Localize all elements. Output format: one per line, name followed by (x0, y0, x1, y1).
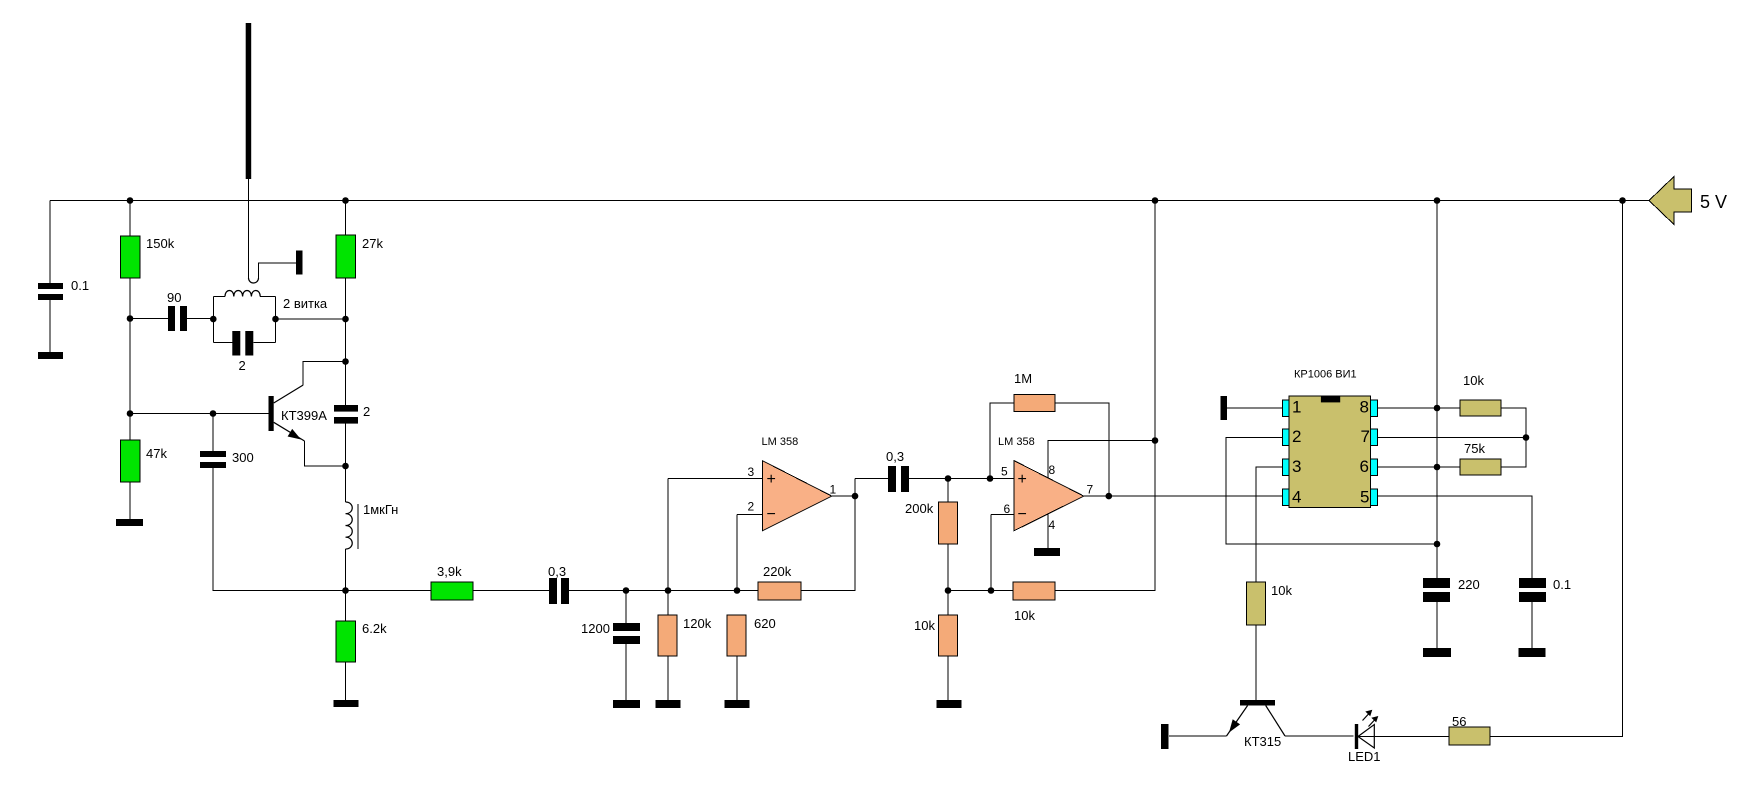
transistor Q2 KT315 (1240, 700, 1275, 706)
node junction midrow-1200 (623, 587, 630, 594)
node junction midrow-620 (734, 587, 741, 594)
node junction 200k-10k (945, 587, 952, 594)
svg-text:56: 56 (1452, 714, 1466, 729)
svg-text:0,3: 0,3 (886, 449, 904, 464)
wire 56 to rail (1490, 201, 1623, 737)
pin 5 (1371, 489, 1378, 506)
svg-text:−: − (1018, 506, 1027, 523)
wire node to C90 (130, 318, 168, 320)
wire op2 output to 555 pin4 (1084, 495, 1283, 497)
LED light arrows (1363, 714, 1375, 727)
resistor R 47k (121, 440, 141, 482)
terminal antenna coupling tap (296, 251, 303, 275)
node junction 555pin8 (1434, 405, 1441, 412)
wire op2 pin8 to rail column (1048, 441, 1155, 479)
pin 1 (1282, 400, 1289, 417)
wire tank right side (275, 297, 277, 343)
wire 10k right to corner (1501, 408, 1526, 438)
wire collector KT315 (1266, 706, 1285, 737)
resistor R 56 (1449, 727, 1490, 745)
node junction rail-150k (127, 197, 134, 204)
pin 6 (1371, 459, 1378, 476)
antenna (246, 23, 252, 179)
svg-text:220k: 220k (763, 564, 792, 579)
svg-text:−: − (767, 506, 776, 523)
pin 4 (1282, 489, 1289, 506)
inductor tank coil 2 витка (213, 296, 275, 298)
resistor R 10k (555 top) (1460, 400, 1501, 416)
svg-text:2: 2 (239, 358, 246, 373)
wire 555 pin5 (1377, 496, 1532, 578)
wire C 0,3 to op-amp inputs (569, 590, 758, 592)
resistor R 3,9k (431, 582, 473, 600)
node junction tank-27k (342, 316, 349, 323)
ground below 47k (116, 519, 143, 526)
wire 75k right to corner (1501, 438, 1526, 468)
node junction rail-op2pin8 (1152, 197, 1159, 204)
svg-text:3: 3 (1292, 457, 1301, 476)
svg-text:2: 2 (748, 500, 755, 514)
op-amp U1 LM358 (668, 478, 762, 480)
svg-text:+: + (1018, 471, 1027, 488)
IC U3 KP1006 VI1 (555) (1289, 396, 1371, 508)
capacitor 2 (tank) (213, 342, 232, 344)
5V arrow (1649, 177, 1692, 225)
svg-text:5: 5 (1360, 488, 1369, 507)
wire node to pin2 (736, 515, 738, 591)
wire 5V rail (50, 200, 1649, 202)
resistor R 620 (727, 615, 746, 656)
wire cap2 to coil (345, 424, 347, 502)
svg-text:2 витка: 2 витка (283, 296, 328, 311)
wire 555 pin7 (1377, 437, 1526, 439)
node junction rail-555col (1434, 197, 1441, 204)
pin 3 (1282, 459, 1289, 476)
op-amp U2 LM358 (991, 514, 1014, 516)
svg-text:7: 7 (1361, 427, 1370, 446)
LED LED1 (1355, 724, 1358, 749)
node junction 555pin2-220 (1434, 541, 1441, 548)
ground op2 pin4 (1034, 548, 1060, 556)
resistor R 6.2k (336, 621, 356, 662)
wire below C 0.1 (49, 300, 51, 352)
node junction rail-27k (342, 197, 349, 204)
svg-text:620: 620 (754, 616, 776, 631)
terminal emitter KT315 (1161, 724, 1169, 749)
resistor R 1M (feedback op2) (990, 403, 1014, 479)
resistor R 10k (feedback) (1013, 582, 1055, 600)
wire 1200 to ground (625, 644, 627, 700)
ground below C 0.1 (38, 352, 63, 359)
wire antenna lead with coupling hook (248, 179, 250, 278)
node junction collector (342, 358, 349, 365)
svg-text:0,3: 0,3 (548, 564, 566, 579)
pin 2 (1282, 429, 1289, 446)
wire 27k column down (345, 278, 347, 405)
capacitor 2 (collector-emitter) (334, 405, 358, 412)
node junction 10k-75k (1523, 434, 1530, 441)
svg-text:КТ315: КТ315 (1244, 734, 1281, 749)
resistor R 27k (336, 235, 356, 278)
wire rail column x1437 (1436, 201, 1438, 579)
node junction midrow-6.2k (342, 587, 349, 594)
wire collector (274, 385, 304, 403)
svg-text:4: 4 (1049, 518, 1056, 532)
svg-text:1: 1 (830, 483, 837, 497)
svg-text:10k: 10k (914, 618, 935, 633)
svg-text:3: 3 (748, 465, 755, 479)
svg-text:10k: 10k (1463, 373, 1484, 388)
svg-text:7: 7 (1087, 483, 1094, 497)
node junction tank-right (272, 316, 279, 323)
svg-text:5: 5 (1001, 465, 1008, 479)
wire emitter KT315 (1227, 706, 1248, 737)
wire lower feedback row (948, 590, 1013, 592)
svg-text:27k: 27k (362, 236, 383, 251)
resistor R 200k (947, 479, 949, 503)
svg-text:LM 358: LM 358 (998, 436, 1035, 448)
svg-text:47k: 47k (146, 446, 167, 461)
wire 555 pin8 (1377, 407, 1460, 409)
resistor R 10k (to ground) (947, 591, 949, 616)
node junction pin6-10k (988, 587, 995, 594)
wire C to op2 pin5 (909, 478, 1014, 480)
wire 620 bottom (736, 656, 738, 700)
svg-text:LED1: LED1 (1348, 749, 1381, 764)
node junction 150k-90cap (127, 315, 134, 322)
wire op1 output (832, 495, 855, 497)
svg-text:0.1: 0.1 (1553, 577, 1571, 592)
wire 6.2k to ground (345, 662, 347, 700)
wire 10k bottom (947, 656, 949, 700)
capacitor 0.1 (left) (38, 283, 63, 289)
node junction rail-56 (1619, 197, 1626, 204)
svg-text:2: 2 (363, 404, 370, 419)
svg-text:10k: 10k (1014, 608, 1035, 623)
wire 555 pin2 (1226, 438, 1437, 545)
capacitor 0.1 (right) (1519, 578, 1546, 588)
wire 555 pin6 (1377, 466, 1460, 468)
ground below 1200 (613, 700, 640, 708)
node junction op1-out (852, 493, 859, 500)
svg-text:8: 8 (1360, 398, 1369, 417)
capacitor 1200 (625, 591, 627, 624)
wire tank to 27k column (276, 318, 346, 320)
svg-text:КТ399А: КТ399А (281, 408, 327, 423)
svg-text:1200: 1200 (581, 621, 610, 636)
pin 8 (1371, 400, 1378, 417)
resistor R 75k (1460, 459, 1501, 475)
node junction tank-left (210, 316, 217, 323)
svg-text:6: 6 (1004, 502, 1011, 516)
ground below 10k (937, 700, 962, 708)
svg-text:6.2k: 6.2k (362, 621, 387, 636)
svg-text:3,9k: 3,9k (437, 564, 462, 579)
node junction 200k-top (945, 475, 952, 482)
wire left branch from rail down to C 0.1 (49, 201, 51, 284)
svg-text:КР1006 ВИ1: КР1006 ВИ1 (1294, 369, 1357, 381)
svg-text:+: + (767, 471, 776, 488)
wire C90 to tank (187, 318, 213, 320)
resistor R 120k (658, 615, 677, 656)
node junction emitter (342, 463, 349, 470)
wire op2 pin4 to ground (1047, 514, 1049, 548)
node junction 1M-pin5 (987, 475, 994, 482)
pin 7 (1371, 429, 1378, 446)
terminal 555 pin1 (1221, 396, 1228, 420)
svg-text:120k: 120k (683, 616, 712, 631)
capacitor 0,3 (second) (855, 478, 888, 480)
node junction op2-out (1106, 493, 1113, 500)
wire base row (130, 413, 269, 415)
resistor R 10k (base) (1247, 582, 1266, 625)
wire 10k feedback to rail column (1055, 201, 1155, 591)
svg-text:LM 358: LM 358 (762, 436, 799, 448)
ground below 120k (656, 700, 681, 708)
capacitor 220 (1423, 578, 1450, 588)
svg-text:1мкГн: 1мкГн (363, 502, 398, 517)
svg-text:90: 90 (167, 290, 181, 305)
wire 3,9k to C 0,3 (473, 590, 549, 592)
wire emitter (274, 422, 305, 441)
node junction pin8-col (1152, 437, 1159, 444)
wire 555 pin3 (1256, 467, 1282, 582)
node junction base-300cap (210, 410, 217, 417)
wire 47k to ground (129, 482, 131, 519)
wire 555 pin1 (1227, 407, 1282, 409)
node junction 47k-base (127, 410, 134, 417)
wire 220k to output node (801, 479, 855, 591)
wire 0.1 to ground (1531, 602, 1533, 648)
wire 300 down to mid row (213, 468, 431, 591)
wire rail to R27k (345, 201, 347, 236)
svg-text:4: 4 (1292, 488, 1301, 507)
wire tank left side (212, 297, 214, 343)
svg-text:1M: 1M (1014, 371, 1032, 386)
wire rail to R150k (129, 201, 131, 237)
svg-text:5 V: 5 V (1700, 192, 1727, 212)
svg-text:2: 2 (1292, 427, 1301, 446)
wire 200k bottom (947, 544, 949, 591)
resistor R 150k (121, 236, 141, 278)
svg-text:1: 1 (1292, 398, 1301, 417)
wire 10k base down (1255, 625, 1257, 700)
capacitor 90 (168, 306, 175, 331)
ground below 620 (725, 700, 750, 708)
capacitor 0,3 (first) (549, 578, 557, 604)
wire 150k down to base row (129, 278, 131, 440)
wire 1M to output (1055, 403, 1109, 496)
svg-text:6: 6 (1360, 457, 1369, 476)
capacitor 300 (212, 414, 214, 452)
wire op2 pin6 down (990, 515, 992, 591)
svg-text:75k: 75k (1464, 441, 1485, 456)
wire 120k top/bottom (667, 591, 669, 701)
svg-text:150k: 150k (146, 236, 175, 251)
wire 220 to ground (1436, 602, 1438, 648)
ground below 220 (1423, 648, 1451, 657)
node junction midrow-120k (665, 587, 672, 594)
svg-text:220: 220 (1458, 577, 1480, 592)
svg-text:0.1: 0.1 (71, 278, 89, 293)
resistor R 220k (feedback op1) (758, 582, 801, 600)
node junction 555pin6 (1434, 464, 1441, 471)
svg-text:200k: 200k (905, 501, 934, 516)
svg-text:8: 8 (1049, 463, 1056, 477)
ground below 0.1 (1519, 648, 1546, 657)
inductor 1мкГн (346, 502, 353, 549)
wire coil to mid row (345, 549, 347, 621)
svg-text:10k: 10k (1271, 583, 1292, 598)
wire node to pin3 (667, 479, 669, 591)
ground below 6.2k (334, 700, 359, 707)
svg-text:300: 300 (232, 450, 254, 465)
